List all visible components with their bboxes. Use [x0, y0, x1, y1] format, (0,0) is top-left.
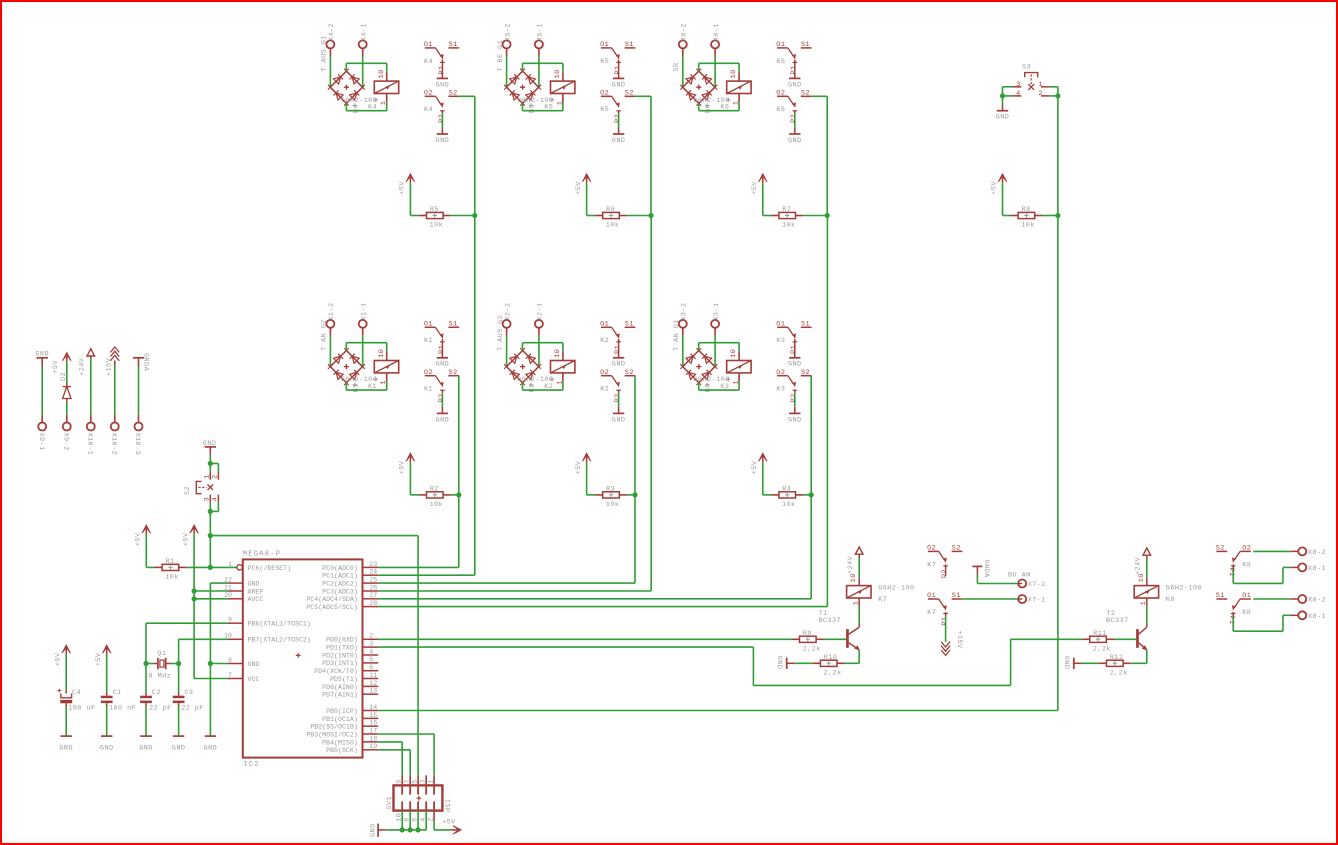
svg-text:PC3(ADC3): PC3(ADC3): [322, 588, 358, 595]
svg-text:PB3(MOSI/OC2): PB3(MOSI/OC2): [306, 731, 357, 738]
svg-text:16: 16: [369, 720, 377, 727]
svg-text:C2: C2: [152, 689, 161, 697]
svg-text:X5-1: X5-1: [537, 23, 545, 41]
svg-text:K4: K4: [424, 58, 433, 66]
svg-text:4: 4: [1016, 90, 1021, 98]
svg-text:10: 10: [1138, 573, 1146, 582]
svg-text:X9-2: X9-2: [61, 433, 69, 451]
svg-text:T AUS G2: T AUS G2: [497, 315, 505, 351]
svg-text:X8-2: X8-2: [1308, 549, 1326, 557]
svg-text:C1: C1: [113, 689, 122, 697]
svg-text:10k: 10k: [1021, 222, 1035, 230]
svg-text:R6: R6: [606, 206, 615, 214]
svg-text:1: 1: [733, 380, 741, 385]
svg-text:O2: O2: [424, 369, 433, 377]
svg-text:S1: S1: [801, 321, 810, 329]
svg-text:K1: K1: [368, 383, 377, 391]
svg-text:GND: GND: [775, 656, 783, 670]
svg-text:PC6(/RESET): PC6(/RESET): [248, 565, 292, 572]
svg-text:GNDA: GNDA: [142, 353, 150, 372]
svg-text:PC5(ADC5/SCL): PC5(ADC5/SCL): [306, 604, 357, 611]
svg-text:S1: S1: [625, 321, 634, 329]
svg-text:2,2k: 2,2k: [1093, 645, 1111, 653]
svg-text:GND: GND: [612, 81, 626, 89]
svg-text:O2: O2: [776, 369, 785, 377]
svg-text:GND: GND: [788, 361, 802, 369]
svg-text:S2: S2: [184, 486, 192, 495]
svg-text:PB2(SS/OC1B): PB2(SS/OC1B): [310, 724, 357, 731]
svg-text:IC2: IC2: [243, 761, 260, 769]
svg-text:O2: O2: [600, 90, 609, 98]
svg-text:X5-2: X5-2: [504, 23, 512, 41]
svg-text:S2: S2: [1216, 545, 1225, 553]
svg-text:GND: GND: [100, 745, 114, 753]
svg-text:X4-2: X4-2: [328, 23, 336, 41]
svg-text:G6H2-100: G6H2-100: [1166, 585, 1202, 593]
svg-text:+15V: +15V: [106, 357, 114, 376]
svg-text:20: 20: [224, 592, 232, 599]
svg-text:K6: K6: [776, 58, 785, 66]
svg-text:+24V: +24V: [79, 357, 87, 376]
svg-text:10k: 10k: [782, 501, 796, 509]
svg-text:+5V: +5V: [751, 460, 759, 474]
svg-text:K7: K7: [927, 609, 936, 617]
svg-text:R12: R12: [1110, 654, 1124, 662]
svg-text:GNDA: GNDA: [982, 560, 990, 579]
svg-text:K1: K1: [424, 337, 433, 345]
svg-text:+5V: +5V: [442, 818, 456, 826]
svg-text:BC337: BC337: [818, 617, 841, 625]
svg-text:18: 18: [369, 735, 377, 742]
svg-text:14: 14: [369, 704, 377, 711]
svg-text:GND: GND: [436, 361, 450, 369]
svg-text:K6: K6: [776, 106, 785, 114]
svg-text:K6: K6: [720, 104, 729, 112]
svg-text:X9-1: X9-1: [37, 433, 45, 451]
svg-text:GND: GND: [369, 823, 377, 837]
svg-text:11: 11: [369, 672, 377, 679]
svg-text:2: 2: [369, 633, 373, 640]
svg-text:X3-1: X3-1: [713, 302, 721, 320]
svg-text:19: 19: [369, 743, 377, 750]
svg-text:VCC: VCC: [248, 676, 260, 683]
svg-text:K2: K2: [544, 383, 553, 391]
svg-text:BU AN: BU AN: [1008, 571, 1031, 579]
svg-text:X3-2: X3-2: [681, 302, 689, 320]
svg-text:T AN G1: T AN G1: [673, 319, 681, 351]
svg-text:8 MHz: 8 MHz: [149, 672, 172, 680]
svg-text:+24V: +24V: [1135, 556, 1143, 575]
svg-text:PB6(XTAL1/TOSC1): PB6(XTAL1/TOSC1): [248, 621, 311, 628]
svg-text:S1: S1: [801, 41, 810, 49]
svg-text:MEGA8-P: MEGA8-P: [243, 551, 282, 559]
svg-text:5: 5: [369, 656, 373, 663]
svg-text:6: 6: [369, 664, 373, 671]
svg-text:S2: S2: [625, 369, 634, 377]
svg-text:PD7(AIN1): PD7(AIN1): [322, 692, 358, 699]
svg-text:S1: S1: [952, 592, 961, 600]
svg-text:15: 15: [369, 712, 377, 719]
svg-text:10: 10: [224, 633, 232, 640]
svg-text:GND: GND: [612, 416, 626, 424]
svg-text:1: 1: [556, 101, 564, 106]
svg-text:10k: 10k: [165, 573, 179, 581]
svg-text:GND: GND: [788, 416, 802, 424]
svg-text:GND: GND: [172, 745, 186, 753]
svg-text:1: 1: [1038, 81, 1043, 89]
svg-text:2,2k: 2,2k: [803, 645, 821, 653]
svg-text:1: 1: [380, 380, 388, 385]
svg-text:R9: R9: [803, 630, 812, 638]
svg-text:X8-1: X8-1: [1308, 565, 1326, 573]
svg-text:PB0(ICP): PB0(ICP): [326, 708, 358, 715]
svg-text:10k: 10k: [782, 222, 796, 230]
svg-text:O2: O2: [776, 90, 785, 98]
svg-text:SR: SR: [673, 62, 681, 71]
svg-text:ISP: ISP: [443, 799, 451, 813]
svg-text:100 nF: 100 nF: [109, 705, 136, 713]
svg-text:+15V: +15V: [955, 630, 963, 649]
svg-text:O1: O1: [424, 321, 433, 329]
svg-text:K4: K4: [424, 106, 433, 114]
svg-text:1: 1: [733, 101, 741, 106]
svg-text:S2: S2: [625, 90, 634, 98]
svg-text:GND: GND: [788, 137, 802, 145]
svg-text:S2: S2: [801, 369, 810, 377]
svg-text:GND: GND: [612, 361, 626, 369]
svg-text:Q1: Q1: [157, 650, 166, 658]
svg-text:T BE G1: T BE G1: [497, 40, 505, 72]
svg-text:R4: R4: [782, 486, 791, 494]
svg-text:O1: O1: [776, 41, 785, 49]
svg-text:8: 8: [228, 657, 232, 664]
svg-text:GND: GND: [139, 745, 153, 753]
svg-text:O2: O2: [600, 369, 609, 377]
svg-text:PC4(ADC4/SDA): PC4(ADC4/SDA): [306, 596, 357, 603]
svg-text:9: 9: [395, 779, 403, 784]
svg-text:GND: GND: [436, 416, 450, 424]
svg-text:22: 22: [224, 577, 232, 584]
svg-text:X8-2: X8-2: [1308, 597, 1326, 605]
svg-text:K5: K5: [600, 58, 609, 66]
svg-text:PB4(MISO): PB4(MISO): [322, 739, 358, 746]
svg-text:K4: K4: [368, 104, 377, 112]
svg-text:10k: 10k: [430, 222, 444, 230]
svg-text:O1: O1: [600, 321, 609, 329]
svg-text:X10-2: X10-2: [109, 433, 117, 456]
svg-text:+5V: +5V: [991, 181, 999, 195]
svg-text:PC0(ADC0): PC0(ADC0): [322, 565, 358, 572]
svg-text:GND: GND: [612, 137, 626, 145]
svg-text:GND: GND: [248, 661, 260, 668]
svg-text:2: 2: [211, 474, 219, 479]
svg-text:T AUS G1: T AUS G1: [321, 35, 329, 71]
svg-text:R5: R5: [430, 206, 439, 214]
svg-text:9: 9: [228, 617, 232, 624]
svg-text:PD2(INT0): PD2(INT0): [322, 652, 358, 659]
svg-text:+24V: +24V: [847, 555, 855, 574]
svg-text:K7: K7: [878, 596, 887, 604]
svg-text:PD0(RXD): PD0(RXD): [326, 637, 358, 644]
svg-text:S1: S1: [1216, 592, 1225, 600]
svg-text:1: 1: [228, 561, 232, 568]
svg-text:PD1(TXD): PD1(TXD): [326, 645, 358, 652]
svg-text:X4-1: X4-1: [360, 23, 368, 41]
svg-text:7: 7: [228, 672, 232, 679]
svg-text:AVCC: AVCC: [248, 596, 264, 603]
svg-text:+5V: +5V: [135, 532, 143, 546]
svg-text:BC337: BC337: [1106, 617, 1129, 625]
svg-text:24: 24: [369, 569, 377, 576]
svg-text:2: 2: [1038, 90, 1043, 98]
svg-text:+5V: +5V: [751, 181, 759, 195]
svg-text:22 pF: 22 pF: [149, 705, 172, 713]
svg-text:22 pF: 22 pF: [181, 705, 204, 713]
svg-text:23: 23: [369, 561, 377, 568]
svg-text:K8: K8: [1242, 609, 1251, 617]
svg-text:+5V: +5V: [575, 460, 583, 474]
svg-text:O1: O1: [600, 41, 609, 49]
svg-text:X2-1: X2-1: [537, 302, 545, 320]
svg-text:27: 27: [369, 592, 377, 599]
svg-text:G6H2-100: G6H2-100: [878, 585, 914, 593]
svg-text:O1: O1: [927, 592, 936, 600]
svg-text:GND: GND: [248, 581, 260, 588]
svg-text:+5V: +5V: [182, 532, 190, 546]
svg-text:D2: D2: [60, 372, 68, 381]
svg-text:100 uF: 100 uF: [68, 705, 95, 713]
svg-text:+5V: +5V: [575, 181, 583, 195]
svg-text:S3: S3: [1022, 64, 1031, 72]
svg-text:X2-2: X2-2: [504, 302, 512, 320]
svg-text:PC1(ADC1): PC1(ADC1): [322, 573, 358, 580]
svg-text:10: 10: [554, 349, 562, 358]
svg-text:10k: 10k: [430, 501, 444, 509]
svg-text:C4: C4: [72, 689, 81, 697]
svg-text:5: 5: [411, 779, 419, 784]
svg-text:R2: R2: [430, 486, 439, 494]
svg-text:10: 10: [378, 349, 386, 358]
svg-text:X10-3: X10-3: [133, 433, 141, 456]
svg-text:+5V: +5V: [95, 652, 103, 666]
svg-text:R10: R10: [824, 654, 838, 662]
svg-text:S2: S2: [952, 545, 961, 553]
svg-text:O1: O1: [424, 41, 433, 49]
svg-text:GND: GND: [35, 351, 49, 359]
svg-text:3: 3: [419, 779, 427, 784]
svg-text:GND: GND: [436, 137, 450, 145]
svg-text:T AN G2: T AN G2: [321, 319, 329, 351]
svg-text:+5V: +5V: [399, 460, 407, 474]
svg-text:S1: S1: [449, 321, 458, 329]
svg-text:1: 1: [556, 380, 564, 385]
svg-text:K3: K3: [776, 337, 785, 345]
svg-text:K3: K3: [776, 386, 785, 394]
svg-text:O2: O2: [1242, 545, 1251, 553]
svg-text:X6-2: X6-2: [681, 23, 689, 41]
svg-text:PD5(T1): PD5(T1): [330, 676, 358, 683]
svg-text:R1: R1: [166, 558, 175, 566]
svg-text:28: 28: [369, 600, 377, 607]
svg-text:25: 25: [369, 577, 377, 584]
svg-text:1: 1: [203, 474, 211, 479]
svg-text:X8-1: X8-1: [1308, 613, 1326, 621]
svg-text:GND: GND: [59, 745, 73, 753]
svg-text:10: 10: [554, 69, 562, 78]
svg-text:10: 10: [850, 573, 858, 582]
svg-text:10k: 10k: [606, 222, 620, 230]
svg-text:3: 3: [369, 641, 373, 648]
svg-text:17: 17: [369, 727, 377, 734]
svg-text:X1-1: X1-1: [360, 302, 368, 320]
svg-text:GND: GND: [436, 81, 450, 89]
svg-text:26: 26: [369, 584, 377, 591]
svg-text:GND: GND: [788, 81, 802, 89]
svg-text:K5: K5: [600, 106, 609, 114]
svg-text:2,2k: 2,2k: [1110, 669, 1128, 677]
svg-text:O1: O1: [1242, 592, 1251, 600]
svg-text:PC2(ADC2): PC2(ADC2): [322, 581, 358, 588]
svg-text:10: 10: [378, 69, 386, 78]
svg-text:X7-1: X7-1: [1028, 597, 1046, 605]
svg-text:C3: C3: [184, 689, 193, 697]
svg-text:PD4(XCK/T0): PD4(XCK/T0): [314, 668, 358, 675]
svg-text:1: 1: [380, 101, 388, 106]
svg-text:O1: O1: [776, 321, 785, 329]
svg-text:K1: K1: [424, 386, 433, 394]
svg-text:GND: GND: [204, 745, 218, 753]
svg-text:S1: S1: [449, 41, 458, 49]
svg-text:R7: R7: [782, 206, 791, 214]
svg-text:10: 10: [730, 349, 738, 358]
svg-text:1: 1: [427, 779, 435, 784]
svg-text:PD6(AIN0): PD6(AIN0): [322, 684, 358, 691]
svg-text:PB7(XTAL2/TOSC2): PB7(XTAL2/TOSC2): [248, 637, 311, 644]
svg-text:X10-1: X10-1: [85, 433, 93, 456]
svg-text:PB1(OC1A): PB1(OC1A): [322, 716, 358, 723]
svg-text:X1-2: X1-2: [328, 302, 336, 320]
svg-text:K8: K8: [1242, 561, 1251, 569]
svg-text:K7: K7: [927, 561, 936, 569]
svg-text:+5V: +5V: [54, 652, 62, 666]
svg-text:GND: GND: [996, 114, 1010, 122]
svg-text:PB5(SCK): PB5(SCK): [326, 747, 358, 754]
svg-text:R3: R3: [606, 486, 615, 494]
svg-text:K2: K2: [600, 386, 609, 394]
svg-text:X7-2: X7-2: [1028, 581, 1046, 589]
svg-text:PD3(INT1): PD3(INT1): [322, 660, 358, 667]
svg-text:12: 12: [369, 680, 377, 687]
svg-text:S2: S2: [449, 369, 458, 377]
svg-text:O2: O2: [424, 90, 433, 98]
svg-text:O2: O2: [927, 545, 936, 553]
svg-text:K2: K2: [600, 337, 609, 345]
svg-text:K8: K8: [1166, 596, 1175, 604]
svg-text:S2: S2: [449, 90, 458, 98]
svg-text:1: 1: [1140, 601, 1148, 606]
svg-text:21: 21: [224, 584, 232, 591]
svg-text:2,2k: 2,2k: [824, 669, 842, 677]
svg-text:+5V: +5V: [52, 360, 60, 374]
svg-text:SV1: SV1: [386, 796, 394, 810]
svg-text:3: 3: [1016, 81, 1021, 89]
svg-text:10: 10: [730, 69, 738, 78]
svg-text:K5: K5: [544, 104, 553, 112]
svg-text:1: 1: [853, 601, 861, 606]
svg-text:13: 13: [369, 688, 377, 695]
svg-text:GND: GND: [1062, 656, 1070, 670]
svg-text:10k: 10k: [606, 501, 620, 509]
svg-text:R11: R11: [1093, 630, 1107, 638]
svg-text:AREF: AREF: [248, 588, 264, 595]
svg-text:R8: R8: [1022, 206, 1031, 214]
svg-text:7: 7: [403, 779, 411, 784]
svg-text:X6-1: X6-1: [713, 23, 721, 41]
svg-text:S2: S2: [801, 90, 810, 98]
svg-text:K3: K3: [720, 383, 729, 391]
svg-text:S1: S1: [625, 41, 634, 49]
svg-text:+5V: +5V: [399, 181, 407, 195]
svg-text:4: 4: [369, 648, 373, 655]
